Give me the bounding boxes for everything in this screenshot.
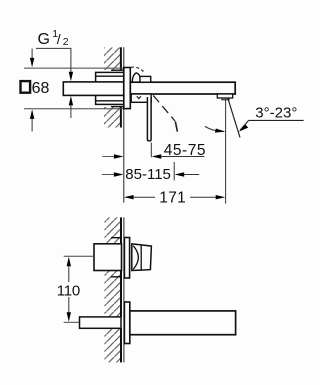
svg-text:45-75: 45-75 bbox=[164, 142, 206, 159]
svg-text:G: G bbox=[38, 31, 50, 48]
svg-text:2: 2 bbox=[63, 36, 69, 48]
svg-text:171: 171 bbox=[159, 189, 186, 206]
svg-text:3°-23°: 3°-23° bbox=[255, 105, 297, 122]
svg-text:110: 110 bbox=[57, 283, 80, 300]
svg-text:68: 68 bbox=[32, 80, 50, 97]
svg-text:/: / bbox=[57, 31, 61, 47]
svg-text:85-115: 85-115 bbox=[125, 166, 171, 183]
